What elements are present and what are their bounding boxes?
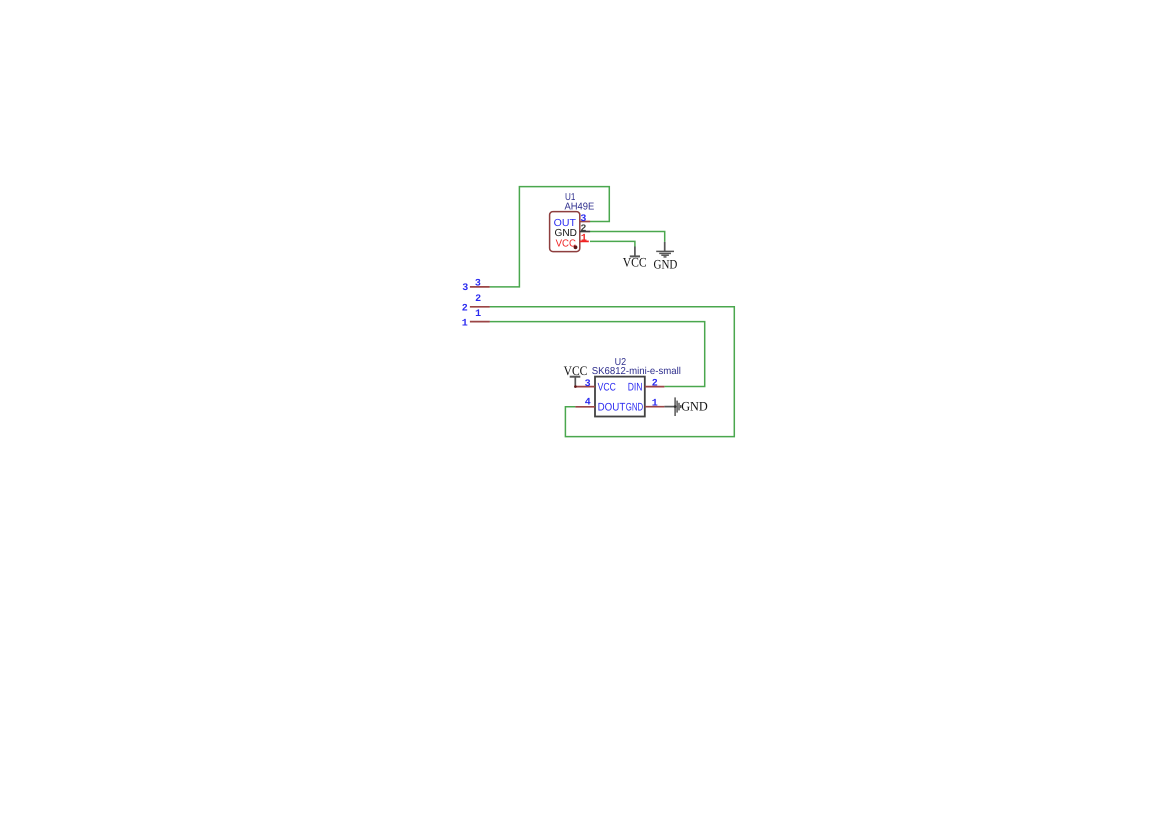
svg-text:4: 4	[585, 398, 591, 409]
wire: U1 GND pin 2 to ground symbol	[590, 232, 665, 242]
wire: U1 VCC pin 1 to VCC symbol	[590, 241, 635, 246]
U2 pin 1 GND	[626, 399, 665, 414]
svg-text:VCC: VCC	[623, 254, 647, 269]
svg-text:1: 1	[652, 399, 658, 410]
ground symbol near U2 (rotated)	[664, 397, 707, 416]
svg-text:1: 1	[581, 234, 587, 245]
svg-text:1: 1	[475, 309, 481, 320]
U1 pin 3 OUT	[554, 214, 590, 229]
svg-text:DIN: DIN	[628, 381, 643, 393]
svg-text:3: 3	[585, 379, 591, 390]
svg-text:DOUT: DOUT	[598, 402, 626, 414]
svg-text:VCC: VCC	[556, 239, 576, 250]
wire net 1: connector pin 1 to U2 DIN	[490, 322, 705, 387]
VCC power symbol near U2	[564, 363, 588, 387]
VCC power symbol near U1	[623, 247, 647, 270]
svg-text:GND: GND	[654, 257, 678, 272]
wire net 2: connector pin 2 to U2 DOUT	[490, 307, 735, 437]
svg-text:2: 2	[462, 304, 468, 315]
IC U1 AH49E hall-effect sensor body	[550, 192, 595, 252]
svg-text:3: 3	[462, 283, 468, 294]
ground symbol near U1	[654, 242, 678, 272]
junction dot U2 VCC	[574, 385, 577, 388]
U2 pin 4 DOUT	[575, 398, 625, 414]
svg-text:AH49E: AH49E	[565, 201, 595, 212]
U2 pin 2 DIN	[628, 379, 665, 394]
svg-text:GND: GND	[681, 398, 708, 413]
U1 pin 1 VCC	[556, 234, 589, 250]
U1 polarity dot	[574, 245, 578, 249]
connector pin 2	[462, 294, 490, 314]
U1 pin 2 GND	[555, 224, 591, 239]
connector pin 1	[462, 309, 490, 329]
svg-text:VCC: VCC	[564, 363, 588, 378]
U2 pin 3 VCC	[576, 379, 616, 394]
svg-text:3: 3	[475, 279, 481, 290]
svg-text:GND: GND	[555, 228, 577, 239]
svg-text:GND: GND	[626, 402, 643, 414]
junction dot U2 GND	[674, 405, 677, 408]
IC U2 SK6812-mini-e-small LED body	[592, 357, 681, 416]
wire net 3: connector pin 3 to U1 OUT	[490, 187, 610, 287]
svg-text:VCC: VCC	[598, 381, 616, 393]
svg-text:SK6812-mini-e-small: SK6812-mini-e-small	[592, 366, 681, 377]
svg-text:1: 1	[462, 318, 468, 329]
svg-text:2: 2	[652, 379, 658, 390]
svg-text:2: 2	[475, 294, 481, 305]
connector pin 3	[462, 279, 490, 295]
